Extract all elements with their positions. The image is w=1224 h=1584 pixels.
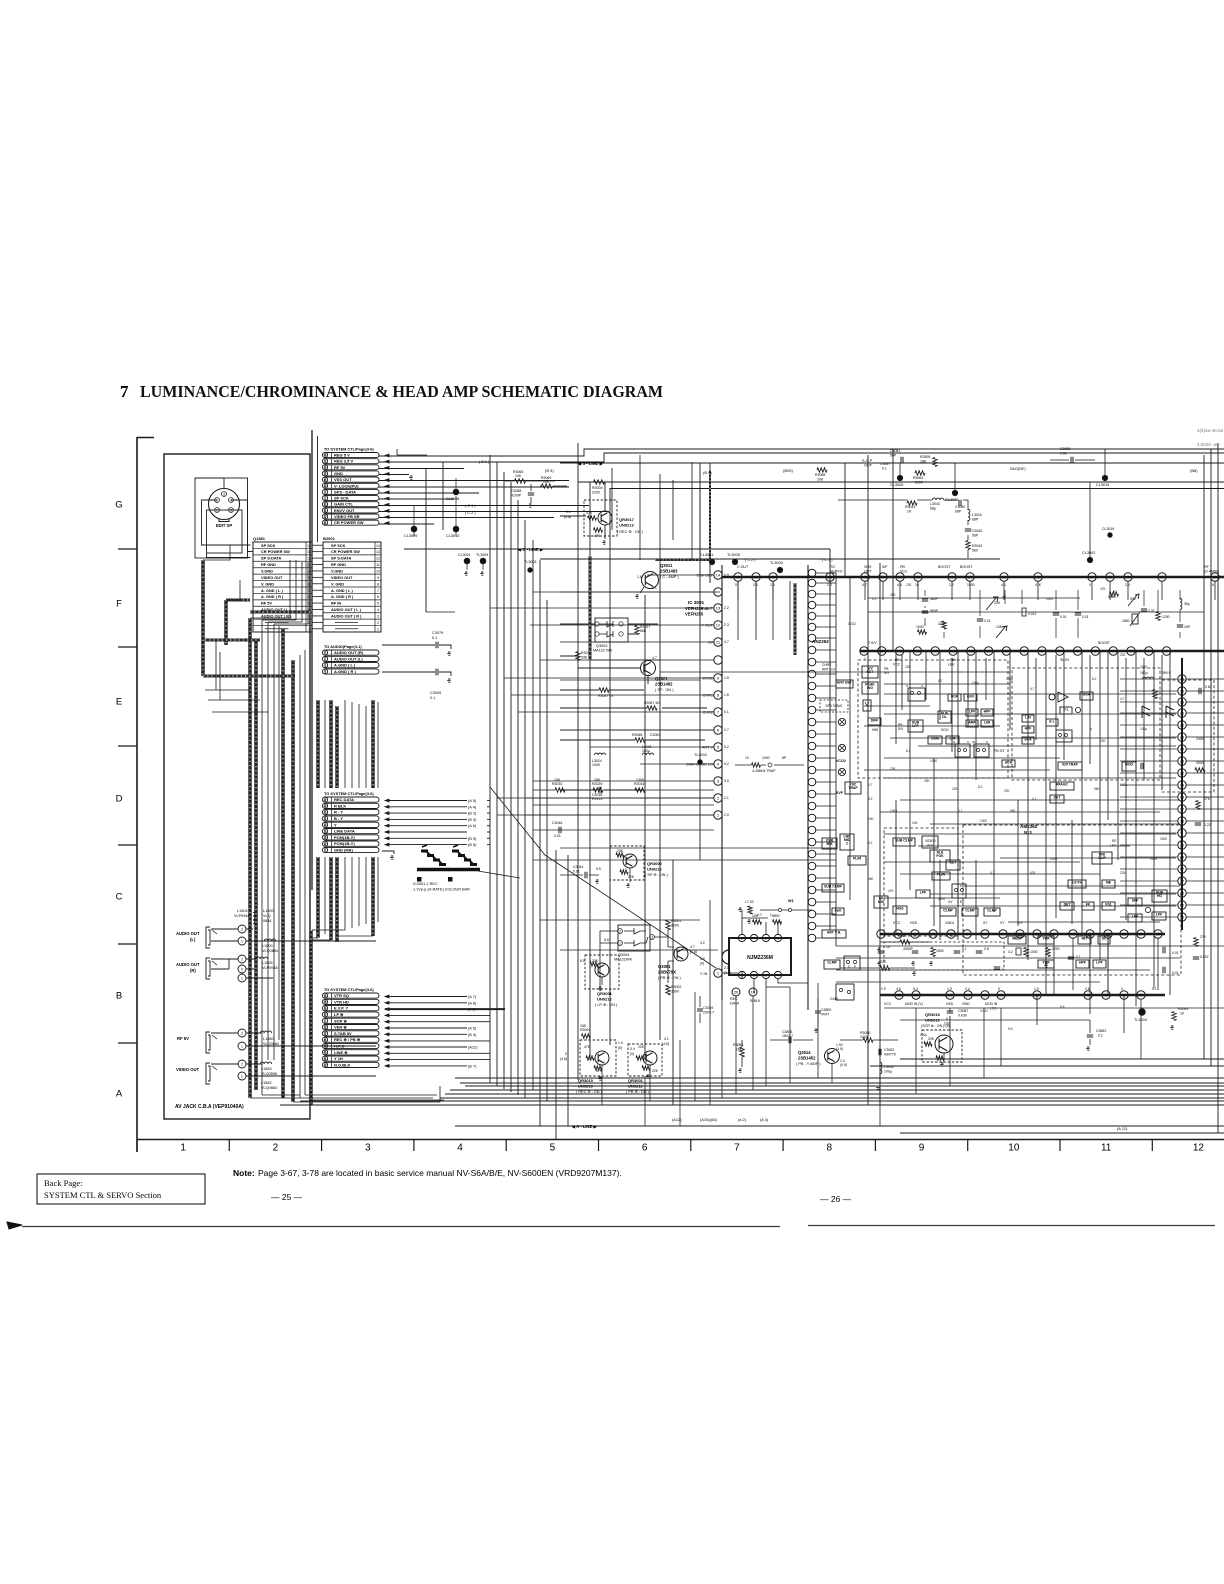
svg-text:CLMP: CLMP xyxy=(965,908,975,912)
svg-text:0: 0 xyxy=(241,968,243,972)
svg-text:15P: 15P xyxy=(1184,625,1191,629)
svg-text:Y OUT: Y OUT xyxy=(701,624,713,628)
svg-text:100μ: 100μ xyxy=(1006,677,1013,681)
svg-text:L1500: L1500 xyxy=(262,944,273,948)
svg-text:41: 41 xyxy=(323,1057,327,1061)
svg-text:1000: 1000 xyxy=(930,759,937,763)
inverter triangle xyxy=(1049,694,1055,700)
IC pin row 1 line xyxy=(722,576,1224,578)
svg-text:ENV DET: ENV DET xyxy=(697,574,714,578)
svg-text:8.2: 8.2 xyxy=(906,749,911,753)
svg-text:MA122 WA: MA122 WA xyxy=(593,649,613,653)
svg-text:IC3001-1 REC: IC3001-1 REC xyxy=(413,882,438,886)
svg-text:RF GND: RF GND xyxy=(261,562,276,567)
svg-text:56P: 56P xyxy=(890,454,897,458)
transistor pair right xyxy=(1142,706,1150,718)
svg-text:PL/M: PL/M xyxy=(853,856,861,860)
svg-text:1.9: 1.9 xyxy=(881,987,886,991)
svg-text:30: 30 xyxy=(1160,575,1165,580)
svg-text:1200: 1200 xyxy=(1162,615,1170,619)
svg-text:27K: 27K xyxy=(1204,797,1211,801)
svg-text:OUT: OUT xyxy=(864,570,872,574)
svg-text:VCC: VCC xyxy=(900,570,908,574)
svg-text:LIM: LIM xyxy=(984,720,990,724)
svg-text:S&G(NF): S&G(NF) xyxy=(1010,467,1026,471)
svg-text:33: 33 xyxy=(1213,575,1218,580)
transistor QR3002 dashed box xyxy=(610,846,644,880)
svg-text:8.5: 8.5 xyxy=(604,938,609,942)
NJM2236M top resistors xyxy=(753,920,762,924)
transistor QR3015 xyxy=(595,1051,609,1065)
svg-text:UN9213: UN9213 xyxy=(578,1084,593,1089)
svg-text:E: E xyxy=(116,697,122,708)
svg-text:22K: 22K xyxy=(928,1037,935,1041)
svg-text:16: 16 xyxy=(1071,932,1076,937)
svg-text:3: 3 xyxy=(223,492,225,496)
svg-text:1000: 1000 xyxy=(890,809,897,813)
wire CL dots verticals xyxy=(640,449,1105,560)
svg-text:SPF: SPF xyxy=(1132,898,1139,902)
svg-text:4.6: 4.6 xyxy=(1001,583,1006,587)
wire top harness verticals mid xyxy=(425,468,427,612)
svg-text:1000: 1000 xyxy=(980,819,987,823)
AM2262 pin row B line xyxy=(880,994,1165,996)
svg-text:100μ: 100μ xyxy=(972,681,979,685)
svg-text:39: 39 xyxy=(1180,700,1185,705)
svg-text:10: 10 xyxy=(983,932,988,937)
svg-text:9.2: 9.2 xyxy=(724,762,729,766)
svg-text:34: 34 xyxy=(323,994,327,998)
svg-text:DATA: DATA xyxy=(730,1002,740,1006)
svg-text:47K: 47K xyxy=(594,534,601,538)
wire jack L xyxy=(211,929,376,941)
svg-text:1.1: 1.1 xyxy=(652,586,657,590)
wire CL dot stems xyxy=(414,478,456,536)
svg-text:Q1581: Q1581 xyxy=(253,536,266,541)
svg-text:C.OUT: C.OUT xyxy=(737,565,749,569)
svg-text:16: 16 xyxy=(736,575,741,580)
svg-text:0.1: 0.1 xyxy=(962,947,967,951)
cable bundle top corners xyxy=(203,545,308,624)
svg-text:(A 4): (A 4) xyxy=(760,1117,769,1122)
svg-text:IC 3001: IC 3001 xyxy=(688,600,705,605)
transistor QR3001 xyxy=(595,963,609,977)
dashed box under row A xyxy=(884,942,1004,970)
svg-text:R3067 1K: R3067 1K xyxy=(644,701,660,705)
wire QR3017 xyxy=(560,482,605,516)
svg-text:20: 20 xyxy=(1180,915,1185,920)
svg-text:TL3001: TL3001 xyxy=(524,560,537,564)
svg-text:UN9212: UN9212 xyxy=(647,867,662,872)
function box PEAK ING xyxy=(862,682,878,694)
right IC pin column pins xyxy=(1178,675,1186,683)
svg-text:2.6: 2.6 xyxy=(1085,987,1090,991)
jack AUDIO OUT L pins xyxy=(238,925,246,933)
svg-text:26: 26 xyxy=(323,472,327,476)
test point TL3004 xyxy=(1139,1009,1145,1015)
svg-text:(B 2): (B 2) xyxy=(468,811,477,816)
svg-text:4.7: 4.7 xyxy=(1030,687,1035,691)
svg-text:AUDIO OUT (L): AUDIO OUT (L) xyxy=(334,656,363,661)
svg-text:24: 24 xyxy=(916,575,921,580)
svg-text:0.1: 0.1 xyxy=(882,467,887,471)
IC3001 body right edge xyxy=(807,565,809,1010)
svg-text:39μ: 39μ xyxy=(1184,602,1190,606)
svg-text:4.6: 4.6 xyxy=(897,583,902,587)
svg-text:8.2: 8.2 xyxy=(868,797,873,801)
svg-text:0.1: 0.1 xyxy=(432,636,437,640)
svg-text:929 TRAP: 929 TRAP xyxy=(1062,762,1079,766)
svg-text:RF IN: RF IN xyxy=(331,601,341,606)
svg-text:N.O.BLK: N.O.BLK xyxy=(334,1062,351,1067)
svg-text:1: 1 xyxy=(308,627,310,631)
dot CL3015 xyxy=(1102,475,1107,480)
svg-text:30: 30 xyxy=(323,842,327,846)
svg-text:0.012: 0.012 xyxy=(1028,612,1037,616)
svg-text:4.6: 4.6 xyxy=(896,987,901,991)
svg-text:LPF: LPF xyxy=(1132,914,1138,918)
svg-text:2.0: 2.0 xyxy=(724,813,729,817)
svg-text:6: 6 xyxy=(324,1019,326,1023)
function box RFAGC xyxy=(1050,782,1074,790)
svg-text:H55: H55 xyxy=(872,728,878,732)
svg-text:7: 7 xyxy=(734,1143,740,1154)
function box ENV xyxy=(964,694,977,701)
svg-text:2.3: 2.3 xyxy=(724,623,729,627)
svg-text:186: 186 xyxy=(594,778,600,782)
svg-text:C3652: C3652 xyxy=(1096,1029,1106,1033)
wire y559 line xyxy=(540,558,1000,560)
svg-text:SYSTEM CTL & SERVO Section: SYSTEM CTL & SERVO Section xyxy=(44,1190,162,1200)
wire r3065 row xyxy=(505,481,567,486)
svg-text:0: 0 xyxy=(565,1052,567,1056)
svg-text:(B 3): (B 3) xyxy=(468,817,477,822)
svg-text:22K: 22K xyxy=(1120,653,1127,657)
svg-text:CHR2: CHR2 xyxy=(822,663,831,667)
svg-text:11: 11 xyxy=(324,509,327,513)
svg-text:REG 3.5 V: REG 3.5 V xyxy=(334,459,353,464)
svg-text:18: 18 xyxy=(862,649,867,654)
svg-text:C3004: C3004 xyxy=(650,733,660,737)
svg-text:AUDIO OUT ( L ): AUDIO OUT ( L ) xyxy=(331,607,362,612)
svg-text:0.1: 0.1 xyxy=(1032,797,1037,801)
svg-text:0.1: 0.1 xyxy=(430,696,435,700)
svg-text:47K: 47K xyxy=(586,511,593,515)
svg-text:( S ): ( S ) xyxy=(990,1007,996,1011)
svg-text:CR POWER SW: CR POWER SW xyxy=(261,549,290,554)
svg-text:AUDIO OUT ( R ): AUDIO OUT ( R ) xyxy=(331,614,362,619)
svg-text:G: G xyxy=(115,500,122,511)
svg-text:LINE ⊕: LINE ⊕ xyxy=(334,1050,348,1055)
svg-text:ME: ME xyxy=(1106,880,1112,884)
cable bundle mid corners xyxy=(205,640,268,712)
svg-text:GAIN CTL: GAIN CTL xyxy=(334,502,353,507)
svg-text:(B 5): (B 5) xyxy=(468,836,477,841)
svg-text:ART V.H: ART V.H xyxy=(822,668,835,672)
svg-text:20: 20 xyxy=(323,515,327,519)
svg-text:C3069: C3069 xyxy=(703,1006,713,1010)
function box DOP xyxy=(948,694,961,701)
wire y740 xyxy=(560,739,705,741)
svg-text:1: 1 xyxy=(241,940,243,944)
svg-text:R3004: R3004 xyxy=(580,1028,590,1032)
svg-text:(B 7): (B 7) xyxy=(468,1063,477,1068)
svg-text:HSS: HSS xyxy=(910,921,918,925)
svg-text:2.8: 2.8 xyxy=(753,583,758,587)
svg-text:W: W xyxy=(972,740,975,744)
svg-text:47K: 47K xyxy=(1030,871,1037,875)
svg-text:0.01: 0.01 xyxy=(1082,615,1089,619)
svg-text:CHR1: CHR1 xyxy=(703,694,713,698)
svg-text:C3046: C3046 xyxy=(552,821,562,825)
svg-text:22K: 22K xyxy=(638,1045,645,1049)
svg-text:L1504: L1504 xyxy=(237,909,248,913)
QR3001b ground xyxy=(649,1065,651,1073)
svg-text:GND1: GND1 xyxy=(945,921,955,925)
page bottom scan edge line xyxy=(22,1226,780,1228)
svg-text:2: 2 xyxy=(846,842,848,846)
svg-text:16: 16 xyxy=(897,649,902,654)
svg-text:25: 25 xyxy=(1180,735,1185,740)
svg-text:UN9212: UN9212 xyxy=(597,997,612,1002)
svg-text:CLMP: CLMP xyxy=(827,960,837,964)
svg-text:1.9: 1.9 xyxy=(1034,987,1039,991)
function box LPF1 xyxy=(966,709,978,716)
wire connector to tables xyxy=(195,478,251,558)
svg-text:3: 3 xyxy=(365,1143,371,1154)
inductor L1583 xyxy=(260,1062,271,1064)
svg-text:V. GND: V. GND xyxy=(331,581,344,586)
svg-text:4: 4 xyxy=(377,608,379,612)
svg-text:VTR SQ: VTR SQ xyxy=(334,993,349,998)
svg-text:DIFF: DIFF xyxy=(871,718,879,722)
svg-text:L1500: L1500 xyxy=(263,909,274,913)
wire C-LINE bus xyxy=(404,548,830,550)
resistor R3030 xyxy=(555,788,565,792)
AM2262 pin row A pins xyxy=(877,930,885,938)
capacitor C3806 xyxy=(789,1037,791,1043)
wire S-LINE bus xyxy=(560,462,1224,464)
svg-text:2SB1452: 2SB1452 xyxy=(798,1056,816,1061)
svg-text:10: 10 xyxy=(745,756,749,760)
svg-text:CLMP: CLMP xyxy=(987,908,997,912)
svg-text:5.6: 5.6 xyxy=(1008,1027,1013,1031)
svg-text:VIDEO OUT: VIDEO OUT xyxy=(176,1067,199,1072)
dot TL3003 xyxy=(777,567,782,572)
svg-text:68μ: 68μ xyxy=(930,507,936,511)
TL3001 test point xyxy=(528,568,532,572)
function box WEST xyxy=(1008,936,1026,944)
svg-text:(16): (16) xyxy=(944,1022,950,1026)
svg-text:100μ: 100μ xyxy=(920,1033,927,1037)
svg-text:L3016: L3016 xyxy=(972,513,982,517)
svg-text:2: 2 xyxy=(619,930,621,934)
svg-text:V: V xyxy=(967,740,969,744)
wire q3091 xyxy=(668,930,681,983)
svg-text:CLMP: CLMP xyxy=(943,908,953,912)
svg-text:EE: EE xyxy=(960,900,965,904)
wire y790 xyxy=(560,789,644,791)
dot CL3016 xyxy=(1108,533,1112,537)
capacitor C3018 xyxy=(599,787,601,793)
shield run mid 2 xyxy=(794,583,797,655)
AV JACK C.B.A board outline xyxy=(164,454,310,1119)
svg-text:2200: 2200 xyxy=(1140,665,1147,669)
svg-text:1000: 1000 xyxy=(1046,597,1053,601)
transistor QR3016 dashed box xyxy=(922,1030,962,1062)
svg-text:23K: 23K xyxy=(617,849,624,853)
jack AUDIO OUT R pins xyxy=(238,955,246,963)
resistor R3065 xyxy=(515,479,526,483)
svg-text:17: 17 xyxy=(1180,867,1185,872)
grid ruler row ticks xyxy=(118,548,137,550)
svg-text:10: 10 xyxy=(376,570,380,574)
svg-text:2SB1482: 2SB1482 xyxy=(655,682,673,687)
svg-text:Page 3-67, 3-78 are located in: Page 3-67, 3-78 are located in basic ser… xyxy=(258,1168,622,1178)
svg-text:(4.8): (4.8) xyxy=(560,1057,567,1061)
capacitor C3(x) xyxy=(879,1049,881,1055)
TL3002 test point xyxy=(698,760,702,764)
wire A-line risers xyxy=(679,1040,681,1126)
function box SUS DL xyxy=(938,711,951,723)
svg-text:434775: 434775 xyxy=(884,1053,896,1057)
svg-text:34: 34 xyxy=(968,575,973,580)
svg-text:18: 18 xyxy=(1122,932,1127,937)
svg-text:23: 23 xyxy=(863,575,868,580)
svg-text:ART V: ART V xyxy=(702,746,714,750)
svg-text:MOD IN (V): MOD IN (V) xyxy=(905,1002,923,1006)
svg-text:3: 3 xyxy=(717,779,720,784)
svg-text:OUT: OUT xyxy=(864,464,873,468)
svg-text:0.81: 0.81 xyxy=(1205,685,1212,689)
svg-text:16K: 16K xyxy=(580,1024,587,1028)
svg-text:— 25 —: — 25 — xyxy=(271,1192,303,1202)
function box ART VH xyxy=(822,930,846,938)
svg-text:AUDIO OUT: AUDIO OUT xyxy=(176,962,200,967)
svg-text:2.0: 2.0 xyxy=(724,966,729,970)
svg-text:33K: 33K xyxy=(924,779,931,783)
svg-text:3.4: 3.4 xyxy=(630,1047,635,1051)
function box HPF2 xyxy=(1022,726,1034,733)
svg-text:0.01: 0.01 xyxy=(1060,615,1067,619)
svg-text:17: 17 xyxy=(1180,807,1185,812)
svg-text:FOK: FOK xyxy=(936,854,944,858)
svg-text:B2001: B2001 xyxy=(323,536,336,541)
function box ENV DET xyxy=(836,680,853,688)
IC3001 right pin wires xyxy=(816,572,836,574)
svg-text:(D-4M50): (D-4M50) xyxy=(1204,570,1219,574)
svg-text:4.7: 4.7 xyxy=(868,783,873,787)
svg-text:CR POWER SW: CR POWER SW xyxy=(334,520,364,525)
svg-text:T S/V: T S/V xyxy=(868,641,877,645)
function box FF xyxy=(1082,902,1094,910)
transistor Q3014 xyxy=(825,1049,840,1064)
capacitor C3069 xyxy=(697,1009,703,1011)
svg-text:4V47: 4V47 xyxy=(821,1013,829,1017)
svg-text:7: 7 xyxy=(120,382,129,401)
svg-text:(B8): (B8) xyxy=(1190,468,1198,473)
svg-text:GND (MA): GND (MA) xyxy=(334,848,354,853)
mixer circles column xyxy=(838,718,845,725)
NJM bottom pins2 xyxy=(732,988,740,996)
between-row wires xyxy=(925,590,1180,638)
svg-text:1800: 1800 xyxy=(1122,619,1130,623)
svg-text:TO SYSTEM CTL/Page(3-6): TO SYSTEM CTL/Page(3-6) xyxy=(324,791,374,796)
svg-text:38: 38 xyxy=(323,1006,327,1010)
jack VIDEO OUT symbol xyxy=(206,1063,210,1084)
function box LIM1 xyxy=(981,720,993,727)
svg-text:VHS: VHS xyxy=(864,565,872,569)
svg-text:14: 14 xyxy=(376,544,380,548)
svg-text:( LP ⊕ : ON ): ( LP ⊕ : ON ) xyxy=(595,1003,618,1007)
svg-text:12: 12 xyxy=(323,1013,327,1017)
svg-text:15: 15 xyxy=(915,649,920,654)
svg-text:12: 12 xyxy=(307,557,311,561)
svg-text:1000: 1000 xyxy=(1030,950,1038,954)
svg-text:C3050: C3050 xyxy=(955,505,965,509)
svg-text:L1560: L1560 xyxy=(263,1037,274,1041)
svg-text:A. GND ( R ): A. GND ( R ) xyxy=(261,594,284,599)
back page reference box xyxy=(37,1174,205,1204)
svg-text:QR3002: QR3002 xyxy=(647,861,663,866)
svg-text:L3002: L3002 xyxy=(884,1065,894,1069)
switch S-V box 1 xyxy=(908,688,925,701)
svg-text:560: 560 xyxy=(1094,787,1100,791)
switch box mid xyxy=(952,884,966,898)
wires between tables xyxy=(312,544,323,546)
svg-text:R3043: R3043 xyxy=(905,505,915,509)
svg-text:RFAGC: RFAGC xyxy=(1056,782,1068,786)
function box LIM0 xyxy=(946,736,959,744)
svg-text:24: 24 xyxy=(1180,855,1185,860)
svg-text:22K: 22K xyxy=(906,583,913,587)
grid ruler left vertical line xyxy=(136,437,138,1152)
svg-text:3: 3 xyxy=(324,490,326,494)
svg-text:1: 1 xyxy=(241,1045,243,1049)
svg-text:28: 28 xyxy=(1108,575,1113,580)
svg-text:10: 10 xyxy=(1008,1143,1020,1154)
svg-text:9: 9 xyxy=(919,1143,925,1154)
svg-text:(1.5): (1.5) xyxy=(836,1047,843,1051)
svg-text:2200: 2200 xyxy=(592,491,600,495)
svg-text:6: 6 xyxy=(717,728,720,733)
svg-text:20: 20 xyxy=(734,990,739,995)
svg-text:SERVO: SERVO xyxy=(830,570,843,574)
svg-text:12: 12 xyxy=(376,557,380,561)
svg-text:0.5: 0.5 xyxy=(984,947,989,951)
IC pin row 2 line xyxy=(860,650,1224,652)
function box NLE FOK xyxy=(930,850,950,862)
svg-text:1306: 1306 xyxy=(636,778,644,782)
wire R3047 xyxy=(560,689,644,691)
svg-text:(B 5): (B 5) xyxy=(545,468,554,473)
svg-text:QR3015: QR3015 xyxy=(578,1078,594,1083)
misc right wires xyxy=(950,934,1124,1033)
svg-text:REC: REC xyxy=(730,997,738,1001)
svg-text:RF 5V: RF 5V xyxy=(261,601,272,606)
transistor QR3002 xyxy=(623,854,637,868)
svg-text:CL3010: CL3010 xyxy=(446,534,459,538)
svg-text:2: 2 xyxy=(241,958,243,962)
svg-text:1000: 1000 xyxy=(1050,857,1057,861)
svg-text:11: 11 xyxy=(1101,1143,1112,1154)
svg-text:1K: 1K xyxy=(1180,1012,1185,1016)
svg-text:L7.33: L7.33 xyxy=(745,900,754,904)
svg-text:31: 31 xyxy=(1002,575,1007,580)
svg-text:C3067: C3067 xyxy=(880,462,890,466)
svg-text:100μ: 100μ xyxy=(642,749,650,753)
svg-text:RF 5V: RF 5V xyxy=(177,1036,189,1041)
